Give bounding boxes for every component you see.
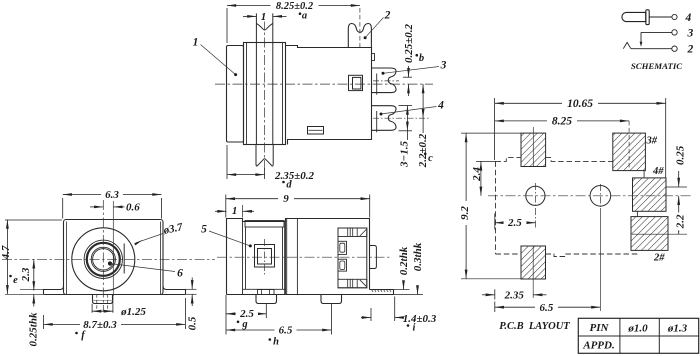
- svg-text:g: g: [241, 319, 247, 330]
- svg-text:SCHEMATIC: SCHEMATIC: [631, 61, 682, 71]
- svg-text:1: 1: [232, 205, 238, 217]
- svg-text:h: h: [273, 337, 279, 348]
- svg-text:1: 1: [261, 11, 267, 23]
- svg-text:0.25thk: 0.25thk: [28, 312, 40, 346]
- svg-text:0.2thk: 0.2thk: [398, 246, 410, 275]
- svg-text:0.6: 0.6: [126, 202, 140, 214]
- svg-text:6: 6: [177, 268, 183, 280]
- svg-text:e: e: [13, 275, 18, 286]
- svg-text:9: 9: [283, 193, 289, 205]
- svg-text:ø1.0: ø1.0: [627, 322, 648, 334]
- svg-text:ø1.25: ø1.25: [120, 306, 146, 318]
- svg-text:6.5: 6.5: [540, 302, 554, 314]
- svg-text:0.3thk: 0.3thk: [412, 242, 424, 271]
- svg-text:6.5: 6.5: [279, 324, 293, 336]
- svg-text:0.25: 0.25: [675, 145, 687, 165]
- svg-text:3: 3: [440, 60, 447, 72]
- svg-text:c: c: [428, 153, 433, 164]
- svg-text:2.3: 2.3: [20, 267, 32, 282]
- svg-text:1.4±0.3: 1.4±0.3: [403, 313, 437, 325]
- svg-text:PIN: PIN: [590, 322, 610, 334]
- svg-text:6.3: 6.3: [105, 189, 119, 201]
- svg-text:3#: 3#: [646, 136, 658, 147]
- svg-text:0.5: 0.5: [187, 316, 199, 330]
- svg-text:8.25±0.2: 8.25±0.2: [276, 1, 314, 12]
- svg-text:P.C.B LAYOUT: P.C.B LAYOUT: [499, 321, 570, 332]
- svg-text:10.65: 10.65: [567, 98, 593, 110]
- svg-text:4: 4: [437, 100, 444, 112]
- svg-text:1: 1: [193, 37, 199, 49]
- svg-text:a: a: [302, 10, 307, 21]
- svg-text:4: 4: [685, 12, 692, 24]
- svg-text:APPD.: APPD.: [582, 340, 614, 352]
- svg-text:2.4: 2.4: [471, 167, 483, 182]
- svg-text:8.25: 8.25: [552, 116, 572, 128]
- svg-text:2: 2: [384, 10, 391, 22]
- svg-text:d: d: [286, 180, 292, 191]
- svg-text:3−1.5: 3−1.5: [399, 141, 411, 168]
- svg-text:0.25±0.2: 0.25±0.2: [403, 23, 415, 63]
- svg-text:i: i: [413, 323, 416, 334]
- svg-text:8.7±0.3: 8.7±0.3: [83, 319, 117, 331]
- svg-text:2.35±0.2: 2.35±0.2: [274, 170, 315, 182]
- svg-text:9.2: 9.2: [459, 206, 471, 220]
- svg-text:3: 3: [687, 27, 694, 39]
- svg-text:4.7: 4.7: [0, 245, 12, 260]
- svg-text:2#: 2#: [653, 253, 665, 264]
- svg-text:2.35: 2.35: [504, 289, 525, 301]
- svg-text:2.2: 2.2: [675, 214, 687, 229]
- svg-text:2: 2: [687, 44, 694, 56]
- svg-text:ø1.3: ø1.3: [667, 322, 688, 334]
- svg-text:5: 5: [201, 224, 207, 236]
- svg-text:b: b: [419, 53, 424, 64]
- svg-text:4#: 4#: [652, 166, 664, 177]
- svg-text:2.5: 2.5: [507, 217, 522, 229]
